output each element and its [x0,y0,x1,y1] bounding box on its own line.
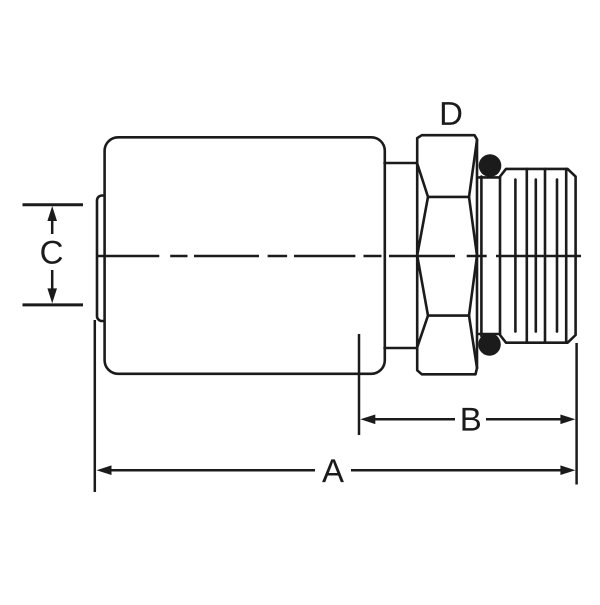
hex facet bottom chamfer right [469,316,477,368]
thread root line 3 [556,180,559,332]
dim A arrow right [560,465,575,475]
dim A/B extension right [575,343,578,485]
hex facet right mid diagonals [469,197,477,316]
hex facet bottom chamfer left [417,316,428,348]
center line [97,255,581,257]
label B [462,408,480,431]
dim A extension left [94,320,97,492]
thread root line 1 [514,180,517,332]
hex facet left mid diagonals [417,197,428,316]
dim C bottom tick [23,303,84,306]
thread crest line 2 [544,169,547,343]
dim C arrow down [47,288,57,303]
label A [322,459,344,482]
dim C arrow line upper [51,216,54,234]
dim B line left part [372,418,455,421]
o-ring groove top line [479,176,500,179]
thread chamfer boundary line [565,169,568,343]
crimp shell body [105,137,385,373]
hose lip collar [97,196,111,322]
o-ring bottom [478,333,501,356]
dim A line right part [351,469,563,472]
hex facet top chord [428,196,469,199]
hex facet top chamfer right [469,140,477,197]
dim A line left part [109,469,315,472]
dim B arrow right [560,415,575,425]
neck top line [385,162,418,165]
hex facet top chamfer left [417,164,428,197]
dim C arrow up [47,206,57,221]
dim C top tick [23,203,84,206]
dim C arrow line lower [51,270,54,292]
label C [41,241,62,264]
dim B extension left [358,334,361,435]
dim B line right part [486,418,563,421]
thread root line 2 [534,180,537,332]
dim A arrow left [97,465,112,475]
hex nut outline [417,135,477,374]
dim B arrow left [360,415,375,425]
o-ring groove bottom line [479,333,500,336]
o-ring groove vertical [480,177,483,337]
thread crest line 1 [525,169,528,343]
hex facet bottom chord [428,314,469,317]
o-ring top [479,154,502,177]
thread body outline [500,169,576,343]
neck bottom line [385,347,418,350]
label D [442,102,462,125]
